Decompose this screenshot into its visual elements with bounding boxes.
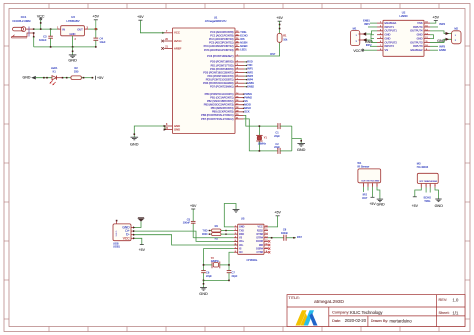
svg-text:GND: GND xyxy=(70,32,76,36)
svg-text:GND: GND xyxy=(199,292,208,296)
svg-text:PB4 (MISOPCINT4): PB4 (MISOPCINT4) xyxy=(211,106,234,110)
svg-text:TRIG: TRIG xyxy=(240,30,246,34)
svg-text:PD4 (PCINT20XCKT0): PD4 (PCINT20XCKT0) xyxy=(207,74,233,78)
svg-text:SHLD: SHLD xyxy=(116,230,118,236)
svg-text:IR Sensor: IR Sensor xyxy=(357,164,369,168)
svg-text:OUTPUT2: OUTPUT2 xyxy=(385,40,398,44)
svg-text:GND: GND xyxy=(174,128,180,132)
svg-text:LED1: LED1 xyxy=(51,66,58,70)
svg-text:RXD: RXD xyxy=(247,60,253,64)
svg-text:CTS#: CTS# xyxy=(256,251,263,254)
svg-text:GND: GND xyxy=(417,33,423,37)
svg-text:U5: U5 xyxy=(241,217,245,221)
svg-text:1.0: 1.0 xyxy=(453,297,459,302)
svg-text:2: 2 xyxy=(426,185,427,187)
svg-text:22pF: 22pF xyxy=(274,134,280,138)
svg-text:PD2 (PCINT18INT0): PD2 (PCINT18INT0) xyxy=(210,67,234,71)
svg-text:12MHz: 12MHz xyxy=(211,259,220,263)
svg-text:2020-02-20: 2020-02-20 xyxy=(345,318,367,323)
svg-text:ENB2: ENB2 xyxy=(247,84,254,88)
svg-text:+5V: +5V xyxy=(369,202,376,206)
svg-text:HC-SR04: HC-SR04 xyxy=(417,165,429,169)
svg-text:TXD: TXD xyxy=(247,63,252,67)
svg-text:IN: IN xyxy=(62,27,65,31)
svg-text:mertarduino: mertarduino xyxy=(390,318,413,323)
svg-text:PB0 (PCINT0CLKOICP1): PB0 (PCINT0CLKOICP1) xyxy=(205,92,234,96)
svg-text:+5V: +5V xyxy=(93,15,100,19)
svg-text:16MHz: 16MHz xyxy=(258,141,267,145)
svg-text:GND: GND xyxy=(239,226,245,229)
svg-text:ECHO: ECHO xyxy=(424,195,431,199)
svg-text:R1: R1 xyxy=(283,34,287,38)
svg-text:+5V: +5V xyxy=(433,15,440,19)
svg-text:GND: GND xyxy=(417,36,423,40)
svg-text:PC1 (ADC1PCINT9): PC1 (ADC1PCINT9) xyxy=(210,34,233,38)
svg-text:IRS: IRS xyxy=(363,192,368,196)
svg-text:TXD: TXD xyxy=(239,229,244,232)
svg-text:Drawn By:: Drawn By: xyxy=(371,319,389,323)
svg-text:MISO: MISO xyxy=(244,106,251,110)
svg-text:LED1: LED1 xyxy=(240,48,247,52)
svg-text:22pF: 22pF xyxy=(274,145,280,149)
svg-text:22pF: 22pF xyxy=(232,274,238,278)
svg-text:2: 2 xyxy=(367,184,368,186)
svg-text:100nF: 100nF xyxy=(39,38,47,42)
svg-text:+5V: +5V xyxy=(412,204,419,208)
svg-text:PB6 (PCINT6XTAL1TOSC1): PB6 (PCINT6XTAL1TOSC1) xyxy=(201,113,233,117)
svg-text:OUTPUT3: OUTPUT3 xyxy=(410,40,423,44)
svg-text:OUT: OUT xyxy=(77,27,83,31)
svg-text:PWM2: PWM2 xyxy=(244,95,252,99)
svg-text:UD+: UD+ xyxy=(239,240,245,243)
svg-text:XI: XI xyxy=(239,247,242,250)
svg-text:+5V: +5V xyxy=(137,15,144,19)
svg-text:PWM1: PWM1 xyxy=(244,92,252,96)
svg-text:GND: GND xyxy=(385,36,391,40)
svg-text:AVCC: AVCC xyxy=(174,39,181,43)
svg-text:M2EN: M2EN xyxy=(240,44,247,48)
svg-text:M2: M2 xyxy=(454,26,458,30)
svg-text:RXD: RXD xyxy=(239,233,244,236)
svg-text:ENABLE1: ENABLE1 xyxy=(385,21,397,25)
svg-text:1: 1 xyxy=(363,184,364,186)
svg-text:PC0 (ADC0PCINT8): PC0 (ADC0PCINT8) xyxy=(210,30,233,34)
svg-text:INP1: INP1 xyxy=(364,22,370,26)
svg-text:C4: C4 xyxy=(100,37,104,41)
svg-text:VS: VS xyxy=(385,48,389,52)
svg-text:REV:: REV: xyxy=(439,298,448,302)
svg-text:INP2: INP2 xyxy=(247,70,253,74)
svg-text:PC6 (PCINT14RESET): PC6 (PCINT14RESET) xyxy=(207,54,233,58)
svg-text:1/1: 1/1 xyxy=(453,310,459,315)
svg-text:ATmega328P-PU: ATmega328P-PU xyxy=(205,19,226,23)
svg-text:VCC: VCC xyxy=(353,49,361,53)
svg-text:C3: C3 xyxy=(43,35,47,39)
svg-text:+5V: +5V xyxy=(139,248,146,252)
svg-text:ENB2: ENB2 xyxy=(439,48,446,52)
svg-text:DTR#: DTR# xyxy=(256,237,263,240)
svg-text:GND: GND xyxy=(385,33,391,37)
svg-text:PD5 (PCINT21OC0BT1): PD5 (PCINT21OC0BT1) xyxy=(206,77,234,81)
svg-text:atmegaL293D: atmegaL293D xyxy=(314,299,344,305)
svg-text:VCC: VCC xyxy=(123,236,131,240)
svg-text:100nF: 100nF xyxy=(183,220,191,224)
svg-text:PB1 (OC1APCINT1): PB1 (OC1APCINT1) xyxy=(210,95,233,99)
svg-text:L7805ABV: L7805ABV xyxy=(66,19,79,23)
svg-text:22pF: 22pF xyxy=(206,274,212,278)
svg-text:MOSI: MOSI xyxy=(244,102,251,106)
svg-text:ECHO: ECHO xyxy=(240,33,247,37)
svg-text:PC3 (ADC3PCINT11): PC3 (ADC3PCINT11) xyxy=(209,41,234,45)
svg-text:R232: R232 xyxy=(257,229,263,232)
svg-text:OUT: OUT xyxy=(362,196,368,200)
svg-text:ENABLE2: ENABLE2 xyxy=(411,48,423,52)
svg-text:Sheet:: Sheet: xyxy=(439,311,450,315)
svg-text:AREF: AREF xyxy=(174,46,182,50)
svg-text:PD3 (PCINT19OC2BINT1): PD3 (PCINT19OC2BINT1) xyxy=(203,70,233,74)
svg-text:GND: GND xyxy=(375,180,380,182)
svg-text:PB7 (PCINT7XTAL2TOSC2): PB7 (PCINT7XTAL2TOSC2) xyxy=(201,117,233,121)
svg-text:INP3: INP3 xyxy=(247,74,253,78)
svg-text:GND: GND xyxy=(433,181,438,183)
svg-text:ENB1: ENB1 xyxy=(247,81,254,85)
svg-text:Company:: Company: xyxy=(332,311,349,315)
svg-text:PD1 (PCINT17TXD): PD1 (PCINT17TXD) xyxy=(211,63,234,67)
svg-text:DC005-2.0MM: DC005-2.0MM xyxy=(13,19,32,23)
svg-text:GND: GND xyxy=(435,204,444,208)
svg-text:GND: GND xyxy=(23,76,31,80)
svg-text:Date:: Date: xyxy=(332,319,341,323)
svg-text:INP1: INP1 xyxy=(247,67,253,71)
svg-text:1: 1 xyxy=(421,185,422,187)
svg-text:KILIC Technology: KILIC Technology xyxy=(350,310,383,315)
svg-text:INP3: INP3 xyxy=(439,45,445,49)
svg-text:330: 330 xyxy=(74,70,79,74)
svg-text:PB5 (SCKPCINT5): PB5 (SCKPCINT5) xyxy=(212,110,234,114)
svg-text:USB1: USB1 xyxy=(113,245,120,249)
svg-text:M1: M1 xyxy=(353,26,357,30)
svg-text:VSS: VSS xyxy=(417,21,423,25)
svg-text:PD0 (PCINT16RXD): PD0 (PCINT16RXD) xyxy=(210,60,233,64)
svg-text:10k: 10k xyxy=(283,38,288,42)
svg-text:PD6 (PCINT22OC0AAIN0): PD6 (PCINT22OC0AAIN0) xyxy=(203,81,234,85)
svg-text:+5V: +5V xyxy=(276,16,283,20)
svg-text:L293D: L293D xyxy=(399,14,407,18)
svg-text:GND: GND xyxy=(376,202,385,206)
svg-text:PD7 (PCINT23AIN1): PD7 (PCINT23AIN1) xyxy=(210,85,234,89)
svg-text:PC2 (ADC2PCINT10): PC2 (ADC2PCINT10) xyxy=(209,37,234,41)
svg-text:SS: SS xyxy=(244,99,248,103)
svg-text:VCC: VCC xyxy=(258,226,263,229)
svg-text:100nF: 100nF xyxy=(281,231,289,235)
svg-text:UD-: UD- xyxy=(239,244,244,247)
svg-text:OUTPUT4: OUTPUT4 xyxy=(410,29,423,33)
svg-text:10uF: 10uF xyxy=(100,40,106,44)
svg-text:R4: R4 xyxy=(215,224,219,228)
svg-text:VCC: VCC xyxy=(174,31,180,35)
svg-text:CH340G: CH340G xyxy=(247,258,258,262)
svg-text:+5V: +5V xyxy=(97,76,104,80)
svg-text:PB3 (MOSIOC2APCINT3): PB3 (MOSIOC2APCINT3) xyxy=(204,103,234,107)
svg-text:ENB1: ENB1 xyxy=(363,18,370,22)
svg-text:SCK: SCK xyxy=(244,110,250,114)
svg-text:TRIG: TRIG xyxy=(424,199,430,203)
svg-text:PC4 (ADC4SDAPCINT12): PC4 (ADC4SDAPCINT12) xyxy=(204,44,234,48)
svg-text:RXD: RXD xyxy=(202,232,208,236)
svg-text:INP4: INP4 xyxy=(247,77,253,81)
svg-text:INPUT2: INPUT2 xyxy=(385,44,395,48)
svg-text:RI#: RI# xyxy=(259,244,263,247)
svg-text:RTS#: RTS# xyxy=(257,233,264,236)
svg-text:INP4: INP4 xyxy=(439,22,445,26)
svg-text:R2: R2 xyxy=(74,66,78,70)
svg-text:GND: GND xyxy=(68,59,77,63)
svg-text:PB2 (SSOC1BPCINT2): PB2 (SSOC1BPCINT2) xyxy=(207,99,234,103)
svg-text:DCD#: DCD# xyxy=(256,240,263,243)
svg-text:TITLE:: TITLE: xyxy=(288,296,300,300)
svg-text:+5V: +5V xyxy=(274,211,281,215)
svg-text:GND: GND xyxy=(297,148,306,152)
svg-text:DSR#: DSR# xyxy=(256,247,263,250)
svg-text:PC5 (ADC5SCLPCINT13): PC5 (ADC5SCLPCINT13) xyxy=(204,48,234,52)
svg-text:TXD: TXD xyxy=(202,228,207,232)
svg-text:R5: R5 xyxy=(215,237,219,241)
svg-text:INPUT4: INPUT4 xyxy=(413,25,423,29)
svg-text:VCC: VCC xyxy=(37,15,45,19)
svg-text:RST: RST xyxy=(270,52,276,56)
svg-text:XO: XO xyxy=(239,251,243,254)
svg-text:OUTPUT1: OUTPUT1 xyxy=(385,29,398,33)
svg-text:INPUT1: INPUT1 xyxy=(385,25,395,29)
svg-text:IRS: IRS xyxy=(240,37,245,41)
svg-text:M1EN: M1EN xyxy=(240,41,247,45)
svg-text:RST: RST xyxy=(297,235,303,239)
svg-text:+5V: +5V xyxy=(190,204,197,208)
svg-text:INPUT3: INPUT3 xyxy=(413,44,423,48)
svg-text:GND: GND xyxy=(130,143,139,147)
